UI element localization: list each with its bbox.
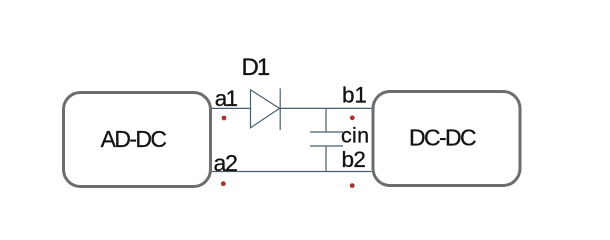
- svg-text:D1: D1: [242, 54, 270, 81]
- svg-text:a1: a1: [215, 86, 238, 111]
- node b2: [342, 147, 366, 188]
- node a1: [215, 86, 238, 120]
- svg-text:b1: b1: [342, 83, 367, 108]
- svg-text:cin: cin: [341, 124, 369, 148]
- svg-text:b2: b2: [342, 147, 366, 172]
- block AD-DC: [64, 93, 211, 187]
- svg-text:AD-DC: AD-DC: [101, 126, 167, 152]
- svg-text:DC-DC: DC-DC: [409, 125, 476, 151]
- wire bottom (a2 to b2): [212, 171, 372, 173]
- diode D1: [242, 54, 281, 130]
- capacitor cin: [310, 108, 369, 171]
- node b1: [342, 83, 367, 121]
- block DC-DC: [373, 92, 520, 186]
- svg-text:a2: a2: [214, 150, 238, 176]
- wire top (a1 to b1): [212, 107, 372, 109]
- node a2: [214, 150, 238, 186]
